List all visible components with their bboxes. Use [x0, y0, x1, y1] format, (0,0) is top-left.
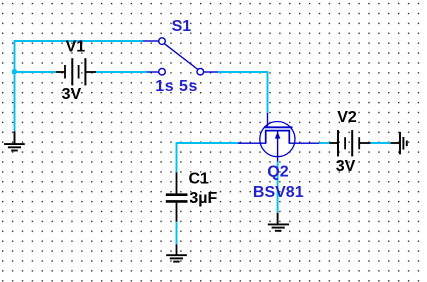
svg-text:V1: V1 — [66, 38, 86, 55]
switch S1 — [143, 38, 218, 75]
transistor Q2 — [238, 113, 319, 162]
wire: C1 column vertical from corner down to C1 top lead — [176, 142, 178, 172]
battery V1 — [56, 58, 96, 85]
wire: left vertical from top wire down to ground — [14, 40, 16, 131]
wire: Q2 source/bulk bottom down to ground lead — [277, 162, 279, 213]
svg-text:3µF: 3µF — [189, 190, 217, 207]
svg-text:3V: 3V — [62, 86, 82, 103]
svg-text:1s 5s: 1s 5s — [155, 78, 198, 95]
ground: below capacitor C1 — [166, 244, 187, 261]
wire: C1 bottom lead down to ground lead — [176, 222, 178, 245]
wire: junction to battery V1 left terminal — [15, 71, 56, 73]
svg-text:3V: 3V — [336, 158, 356, 175]
ground: below transistor Q2 — [268, 213, 289, 231]
ground: right of battery V2 (rotated) — [391, 132, 407, 155]
wire: Q2 right lead to battery V2 left terminal — [319, 142, 329, 144]
wire: corner down to Q2 gate lead — [267, 71, 269, 113]
svg-text:Q2: Q2 — [267, 164, 288, 181]
svg-text:BSV81: BSV81 — [253, 184, 304, 201]
wire: switch S1 common to corner above Q2 gate — [218, 71, 268, 73]
wire: battery V2 right terminal to right ground — [370, 142, 390, 144]
svg-text:V2: V2 — [337, 109, 357, 126]
svg-text:S1: S1 — [172, 18, 192, 35]
battery V2 — [329, 130, 370, 156]
ground: left (below V1 branch) — [4, 131, 25, 150]
wire: C1 top node horizontal run to Q2 drain lead — [177, 142, 239, 144]
capacitor C1 — [166, 172, 188, 221]
wire: top horizontal from left column to switch S1 top throw — [15, 40, 144, 42]
svg-text:C1: C1 — [189, 171, 210, 188]
node: junction dot at left column — [12, 69, 17, 74]
wire: battery V1 right terminal to switch S1 bottom throw — [96, 71, 147, 73]
